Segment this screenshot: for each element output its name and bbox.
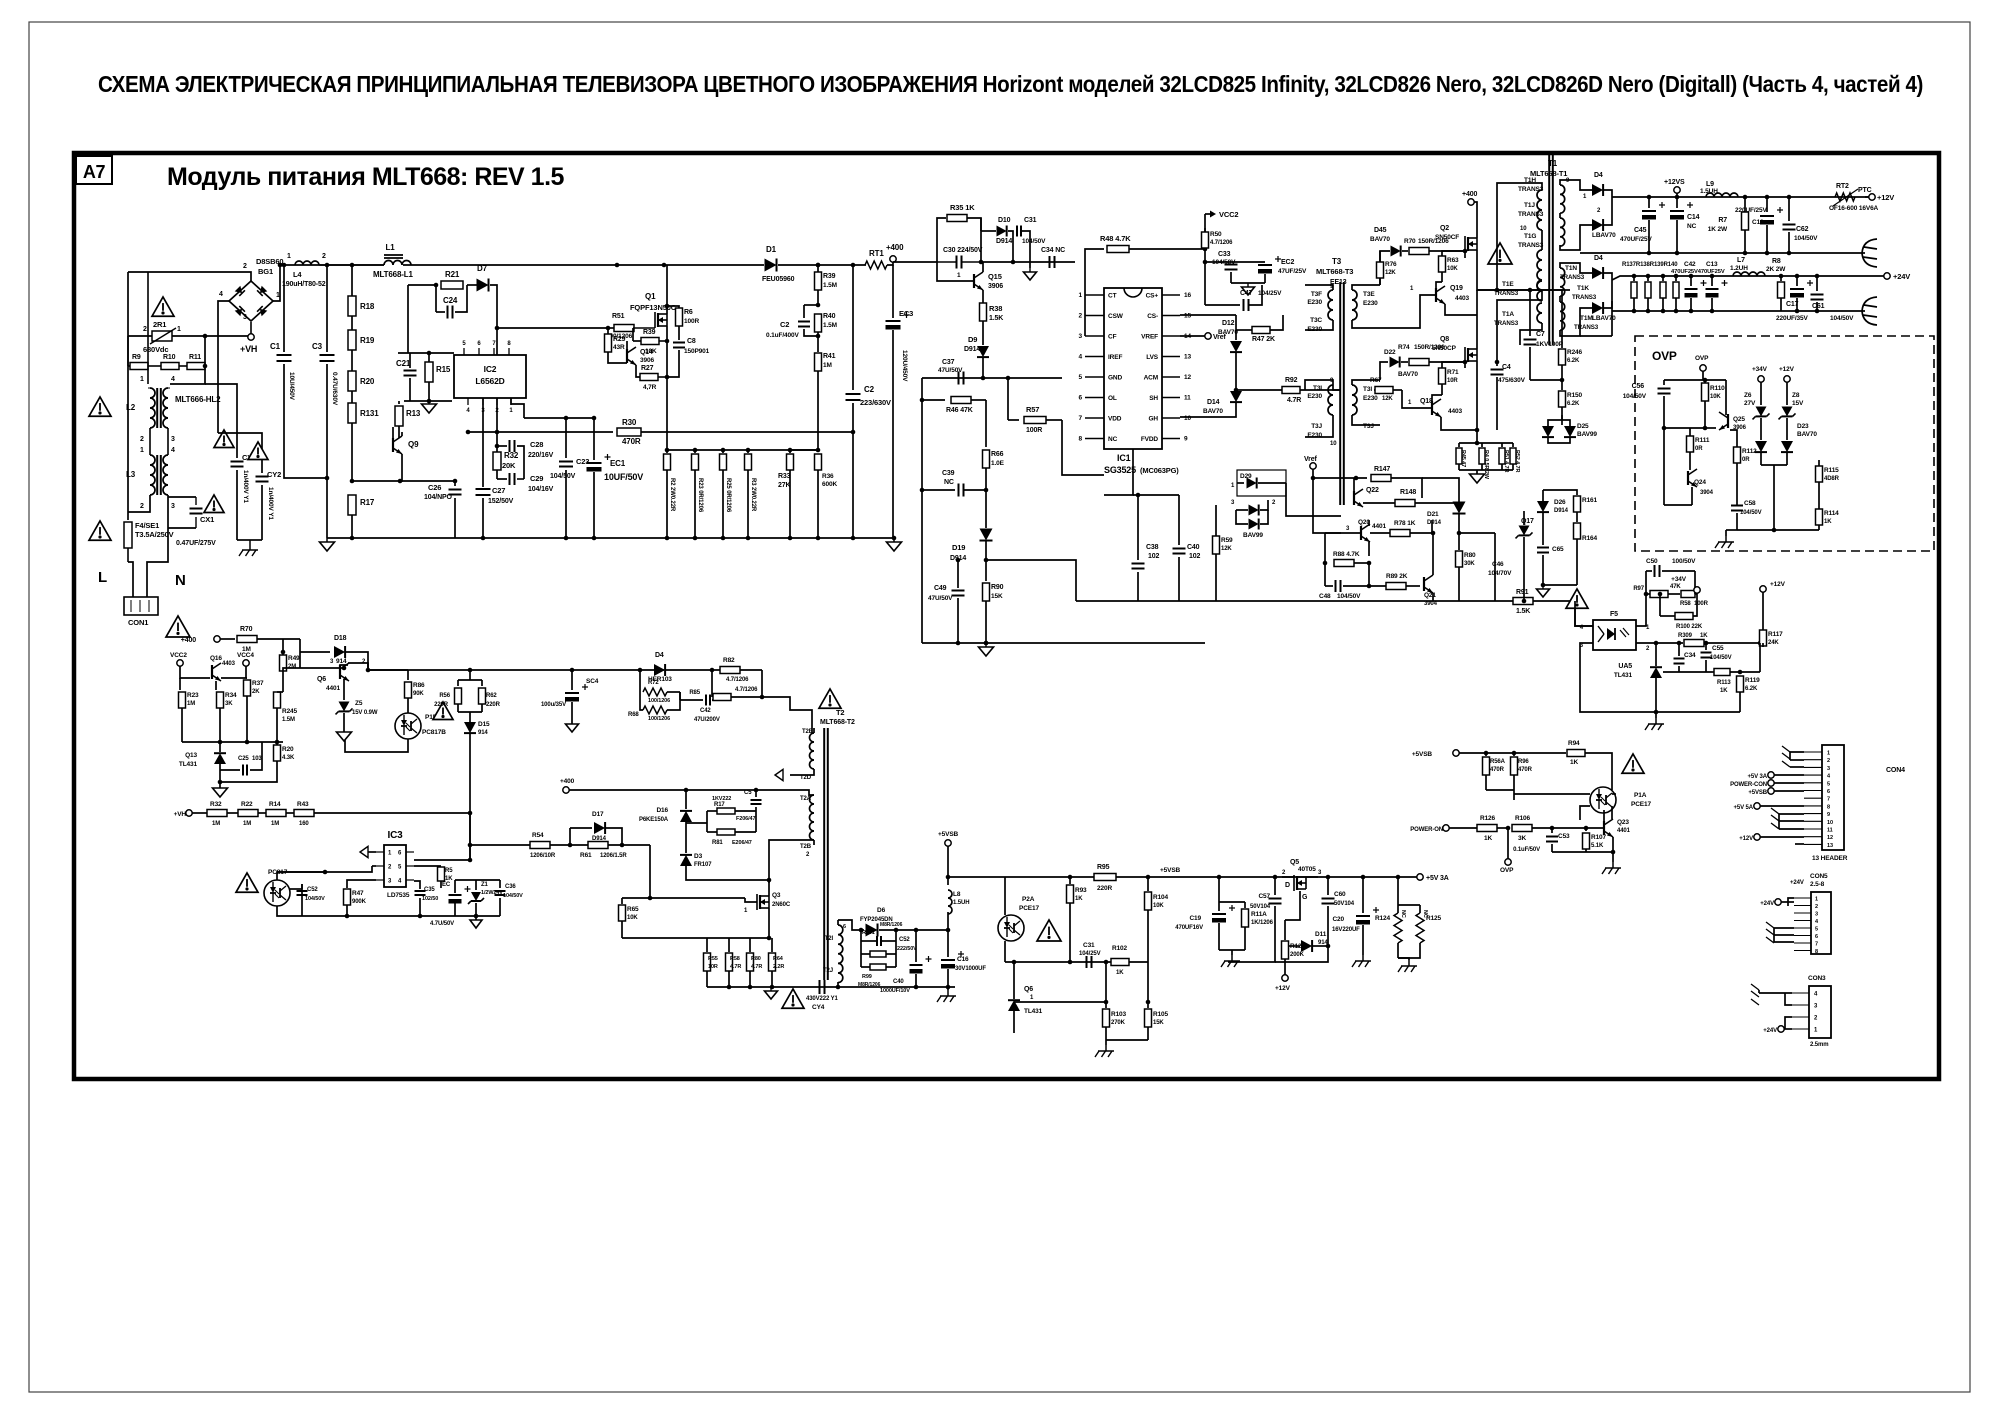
svg-text:C45: C45 bbox=[1634, 227, 1647, 234]
warning triangle CY4 bbox=[782, 989, 804, 1008]
optocoupler P1A bbox=[1590, 787, 1616, 813]
svg-text:47U/50V: 47U/50V bbox=[928, 595, 953, 602]
svg-text:R78 1K: R78 1K bbox=[1394, 520, 1416, 527]
svg-text:40T05: 40T05 bbox=[1298, 866, 1316, 873]
resistor R113 bbox=[1714, 669, 1730, 676]
svg-text:10R: 10R bbox=[708, 964, 718, 970]
sheet label A7 bbox=[76, 156, 112, 184]
svg-text:R80: R80 bbox=[751, 956, 761, 962]
svg-text:3: 3 bbox=[1079, 333, 1083, 340]
wire T2 top from +400 bbox=[563, 787, 569, 793]
svg-text:(MC063PG): (MC063PG) bbox=[1140, 466, 1179, 475]
svg-text:MLT668-L1: MLT668-L1 bbox=[373, 270, 413, 279]
resistor R23 bbox=[693, 448, 698, 453]
wire R21 C24 loop bbox=[408, 284, 436, 286]
wire R92 to T3 bbox=[1333, 385, 1341, 390]
svg-text:5N50CP: 5N50CP bbox=[1432, 345, 1457, 352]
wire T2 primary bottom to Q3 bbox=[769, 840, 814, 896]
svg-text:D914: D914 bbox=[1427, 520, 1442, 526]
svg-text:R39: R39 bbox=[643, 329, 656, 336]
svg-text:CON1: CON1 bbox=[128, 618, 148, 627]
ground SC4 bbox=[566, 724, 579, 732]
svg-text:100/1206: 100/1206 bbox=[648, 716, 670, 722]
svg-text:D11: D11 bbox=[1315, 931, 1327, 938]
svg-text:T2I: T2I bbox=[825, 936, 834, 942]
svg-text:D9: D9 bbox=[968, 335, 977, 344]
wire F5 pin1 bbox=[1636, 594, 1646, 626]
optocoupler PC817 IC3 bbox=[264, 880, 290, 906]
svg-text:Модуль питания MLT668: REV 1.5: Модуль питания MLT668: REV 1.5 bbox=[167, 163, 565, 191]
svg-text:1206/1.5R: 1206/1.5R bbox=[600, 853, 627, 859]
capacitor SC4 bbox=[570, 668, 575, 673]
wire IC3 bottom rail bbox=[302, 915, 455, 917]
capacitor C20 bbox=[1361, 875, 1366, 880]
svg-text:+12VS: +12VS bbox=[1664, 179, 1685, 186]
svg-text:T2: T2 bbox=[836, 708, 844, 717]
svg-text:EC: EC bbox=[442, 882, 451, 888]
svg-text:R70: R70 bbox=[1404, 238, 1416, 245]
svg-text:CON5: CON5 bbox=[1810, 873, 1828, 880]
svg-text:D15: D15 bbox=[478, 721, 490, 728]
resistor R35 bbox=[937, 218, 946, 262]
transistor Q21 bbox=[1423, 577, 1425, 591]
svg-text:223/630V: 223/630V bbox=[860, 398, 891, 407]
snubber resistor R81 bbox=[707, 831, 717, 833]
svg-text:16: 16 bbox=[1184, 292, 1191, 299]
svg-text:D45: D45 bbox=[1374, 227, 1387, 234]
svg-text:104/16V: 104/16V bbox=[528, 486, 554, 493]
svg-text:R48 4.7K: R48 4.7K bbox=[1100, 234, 1131, 243]
resistor R104 bbox=[1146, 875, 1151, 880]
svg-text:LD7535: LD7535 bbox=[387, 892, 410, 899]
wire IC1 bottom stub bbox=[1104, 449, 1133, 495]
svg-text:BG1: BG1 bbox=[258, 267, 273, 276]
svg-text:TRANS3: TRANS3 bbox=[1518, 242, 1544, 249]
svg-text:1.5K: 1.5K bbox=[1516, 608, 1530, 615]
wire +12V return bbox=[1580, 252, 1865, 254]
svg-text:R22: R22 bbox=[241, 801, 253, 808]
resistor R21 bbox=[441, 281, 463, 289]
wire down left rail D19 block bbox=[921, 378, 923, 643]
svg-text:E206/47: E206/47 bbox=[732, 840, 752, 846]
capacitor C61 bbox=[1815, 274, 1820, 279]
resistor R76 bbox=[1379, 251, 1381, 262]
resistor R126 bbox=[1477, 825, 1497, 832]
svg-text:R114: R114 bbox=[1824, 510, 1839, 517]
svg-text:4: 4 bbox=[1079, 354, 1083, 361]
varistor ZR1 bbox=[128, 335, 152, 337]
svg-text:Z8: Z8 bbox=[1792, 392, 1800, 399]
svg-text:+400: +400 bbox=[181, 637, 196, 644]
wire bus L1 to D1 bbox=[403, 264, 764, 266]
wire pin3 stub to C27 bbox=[482, 398, 484, 487]
svg-text:1.5M: 1.5M bbox=[823, 322, 837, 329]
svg-text:0R: 0R bbox=[1742, 457, 1750, 463]
resistor R5 bbox=[414, 865, 441, 867]
svg-text:R124: R124 bbox=[1375, 915, 1391, 922]
svg-text:D16: D16 bbox=[656, 807, 668, 814]
svg-text:R37: R37 bbox=[252, 680, 264, 687]
transistor Q17 bbox=[1519, 526, 1530, 536]
svg-text:680Vdc: 680Vdc bbox=[143, 345, 168, 354]
svg-text:+5VSB: +5VSB bbox=[1748, 790, 1767, 796]
svg-text:R10: R10 bbox=[163, 354, 176, 361]
diode D6 FYP2045DN bbox=[866, 924, 878, 937]
+VH terminal row bbox=[186, 810, 192, 816]
resistor R114 bbox=[1816, 509, 1823, 525]
svg-text:N: N bbox=[175, 572, 186, 589]
svg-text:2K: 2K bbox=[252, 689, 260, 695]
svg-text:2.5-8: 2.5-8 bbox=[1810, 881, 1825, 888]
svg-text:C38: C38 bbox=[1146, 544, 1159, 551]
wire to Q3 gate bbox=[650, 845, 745, 898]
capacitor C48 bbox=[1324, 563, 1326, 586]
wire IC2 top supply bbox=[496, 328, 498, 355]
capacitor C47 bbox=[1204, 262, 1206, 305]
svg-text:C5: C5 bbox=[744, 790, 752, 796]
CON4 +5VSB pin bbox=[1768, 788, 1774, 794]
resistor R49 bbox=[281, 650, 286, 655]
svg-text:104/NPO: 104/NPO bbox=[424, 494, 453, 501]
CON3 gnd hook bbox=[1751, 984, 1759, 1005]
svg-text:C14: C14 bbox=[1687, 214, 1700, 221]
svg-text:4.7R: 4.7R bbox=[751, 964, 762, 970]
warning triangle P2A bbox=[1037, 920, 1061, 941]
warning triangle PC817 bbox=[236, 873, 258, 892]
svg-text:C26: C26 bbox=[428, 483, 441, 492]
svg-text:R23 0R/1206: R23 0R/1206 bbox=[697, 478, 703, 513]
svg-text:EC1: EC1 bbox=[610, 459, 626, 468]
svg-text:5: 5 bbox=[1815, 927, 1818, 933]
svg-text:R34: R34 bbox=[225, 692, 237, 699]
svg-text:R52 4.7R: R52 4.7R bbox=[1514, 450, 1520, 472]
wire bus to R35 block bbox=[893, 261, 937, 263]
svg-text:R80: R80 bbox=[1464, 552, 1476, 559]
warning triangle CON1 bbox=[166, 616, 190, 637]
svg-text:T3I: T3I bbox=[1313, 385, 1322, 392]
svg-text:152/50V: 152/50V bbox=[488, 498, 514, 505]
svg-text:+400: +400 bbox=[1462, 191, 1477, 198]
svg-text:NC: NC bbox=[1400, 910, 1406, 918]
svg-text:R126: R126 bbox=[1480, 815, 1496, 822]
svg-text:470R: 470R bbox=[622, 437, 641, 446]
transistor Q22 bbox=[1353, 491, 1355, 505]
svg-text:D26: D26 bbox=[1554, 499, 1566, 506]
CON4 +12V pin bbox=[1754, 834, 1760, 840]
UA5 TL431 bbox=[1654, 641, 1659, 646]
resistor R309 bbox=[1684, 640, 1704, 647]
resistor R40 bbox=[816, 303, 821, 308]
svg-text:L2: L2 bbox=[126, 403, 136, 412]
svg-text:12: 12 bbox=[1827, 835, 1833, 841]
wire secondary bottom bbox=[837, 982, 839, 987]
svg-text:10: 10 bbox=[1184, 415, 1191, 422]
svg-text:100u/35V: 100u/35V bbox=[541, 702, 566, 708]
T3 winding upper right bbox=[1352, 290, 1357, 320]
svg-text:R55: R55 bbox=[708, 956, 718, 962]
ground IC2 bbox=[404, 400, 452, 402]
wire TL431 ref line bbox=[1663, 671, 1712, 673]
svg-text:1M: 1M bbox=[823, 362, 832, 369]
transistor Q18 bbox=[1431, 401, 1433, 415]
svg-text:R29: R29 bbox=[613, 336, 626, 343]
svg-text:2: 2 bbox=[243, 263, 247, 270]
svg-text:2: 2 bbox=[322, 253, 326, 260]
svg-text:C53: C53 bbox=[1558, 833, 1570, 840]
svg-text:1: 1 bbox=[287, 253, 291, 260]
svg-text:R35 1K: R35 1K bbox=[950, 203, 975, 212]
svg-text:R17: R17 bbox=[360, 498, 375, 507]
wire AC top to bridge bbox=[128, 272, 251, 281]
connector CON3 bbox=[1809, 986, 1831, 1038]
svg-text:4,7R: 4,7R bbox=[643, 384, 657, 391]
resistor R6 bbox=[667, 306, 679, 308]
wire Q3 gate connect bbox=[745, 898, 757, 902]
svg-text:VCC2: VCC2 bbox=[1219, 210, 1238, 219]
svg-text:470UF25V470UF25V: 470UF25V470UF25V bbox=[1671, 269, 1725, 275]
svg-text:R103: R103 bbox=[1111, 1011, 1127, 1018]
inductor L9 bbox=[1706, 193, 1738, 197]
wire R65 bottom bbox=[622, 937, 707, 939]
svg-text:104/50V: 104/50V bbox=[1740, 510, 1762, 516]
svg-text:FVDD: FVDD bbox=[1141, 436, 1159, 443]
svg-text:Q21: Q21 bbox=[1424, 592, 1436, 599]
svg-text:CF: CF bbox=[1108, 334, 1117, 341]
svg-text:1: 1 bbox=[177, 326, 181, 333]
svg-text:CY2: CY2 bbox=[267, 470, 281, 479]
T1 winding T1E bbox=[1537, 281, 1542, 301]
chassis TL431 bbox=[1655, 718, 1657, 724]
svg-text:R90: R90 bbox=[991, 584, 1004, 591]
resistor R245 bbox=[282, 691, 284, 693]
resistor R3 bbox=[746, 448, 751, 453]
svg-text:BAV70: BAV70 bbox=[1797, 431, 1817, 438]
svg-text:1K 2W: 1K 2W bbox=[1708, 226, 1728, 233]
resistor R27 bbox=[636, 365, 640, 377]
svg-text:T3J: T3J bbox=[1363, 423, 1374, 430]
svg-text:R43: R43 bbox=[297, 801, 309, 808]
svg-text:R137R138R139R140: R137R138R139R140 bbox=[1622, 262, 1678, 268]
IC3 box bbox=[384, 845, 406, 887]
resistor R37 bbox=[246, 677, 247, 679]
svg-text:3: 3 bbox=[171, 503, 175, 510]
svg-text:R106: R106 bbox=[1515, 815, 1531, 822]
svg-text:2: 2 bbox=[1815, 904, 1818, 910]
svg-text:C31: C31 bbox=[1083, 942, 1095, 949]
svg-text:0.47U/630V: 0.47U/630V bbox=[331, 372, 338, 406]
capacitor C33 bbox=[1204, 249, 1206, 262]
zener Z5 bbox=[343, 679, 345, 700]
svg-text:R89 2K: R89 2K bbox=[1386, 573, 1408, 580]
resistor R57 bbox=[1008, 419, 1019, 421]
svg-text:TL431: TL431 bbox=[1024, 1008, 1043, 1015]
svg-text:R111: R111 bbox=[1695, 437, 1710, 444]
resistor R78 bbox=[1368, 520, 1370, 526]
transistor Q2 SN50CP bbox=[1464, 236, 1466, 252]
svg-text:LVS: LVS bbox=[1146, 354, 1159, 361]
svg-text:D12: D12 bbox=[1222, 320, 1235, 327]
svg-text:C46: C46 bbox=[1492, 561, 1504, 568]
svg-text:R45 47: R45 47 bbox=[1460, 450, 1466, 467]
resistor R129 bbox=[1284, 920, 1286, 940]
svg-text:D: D bbox=[1285, 882, 1290, 889]
svg-text:R23: R23 bbox=[187, 692, 199, 699]
wire left rail L bbox=[127, 272, 129, 520]
resistor R147 bbox=[1313, 477, 1367, 479]
transistor Q23 wiring OVP bbox=[1691, 487, 1693, 505]
svg-text:1n/400V Y1: 1n/400V Y1 bbox=[267, 487, 274, 520]
svg-text:470UF16V: 470UF16V bbox=[1175, 925, 1203, 931]
svg-text:C56: C56 bbox=[1632, 383, 1645, 390]
resistor R86 bbox=[367, 663, 369, 670]
svg-text:R96: R96 bbox=[1518, 759, 1529, 765]
CON4 ground hook top bbox=[1790, 752, 1804, 760]
svg-text:C50: C50 bbox=[1646, 558, 1658, 565]
wire RT1 to +400 bbox=[887, 262, 893, 265]
svg-text:3906: 3906 bbox=[640, 357, 654, 364]
diode D21 bbox=[1431, 520, 1433, 533]
svg-text:Vref: Vref bbox=[1304, 456, 1317, 463]
svg-text:T1J: T1J bbox=[1524, 202, 1535, 209]
capacitor C38 bbox=[1137, 495, 1139, 560]
+12VS terminal bbox=[1675, 195, 1680, 200]
transistor Q16 bbox=[211, 665, 213, 679]
transistor Q25 bbox=[1727, 414, 1729, 428]
warning triangle sec bbox=[1622, 754, 1644, 773]
wire Q6 collector-emitter bbox=[348, 663, 368, 670]
svg-text:1: 1 bbox=[140, 447, 144, 454]
svg-text:4.7R: 4.7R bbox=[730, 964, 741, 970]
CON5 gnd hook bbox=[1766, 922, 1774, 943]
svg-text:12: 12 bbox=[1184, 374, 1191, 381]
capacitor EC1 bbox=[592, 416, 597, 421]
diode D19 bbox=[985, 490, 987, 528]
sense row R55 R58 R80 R64 bbox=[707, 937, 770, 939]
svg-text:R91: R91 bbox=[1516, 589, 1529, 596]
svg-text:+12V: +12V bbox=[1770, 581, 1786, 588]
svg-text:T3J: T3J bbox=[1311, 423, 1322, 430]
transistor Q1 FQPF13N50C bbox=[654, 312, 656, 328]
svg-text:15V 0.9W: 15V 0.9W bbox=[352, 710, 378, 716]
capacitor C24 bbox=[435, 285, 437, 312]
svg-text:+12V: +12V bbox=[1779, 366, 1795, 373]
resistor R111 bbox=[1663, 428, 1665, 436]
connector CON1 bbox=[124, 597, 158, 615]
resistor R68 zigzag bbox=[643, 706, 667, 714]
svg-text:30V1000UF: 30V1000UF bbox=[955, 966, 986, 972]
svg-text:R56A: R56A bbox=[1490, 759, 1506, 765]
svg-text:100R: 100R bbox=[1026, 427, 1042, 434]
svg-text:6.2K: 6.2K bbox=[1567, 401, 1580, 407]
T1 primary winding bbox=[1537, 190, 1542, 230]
wire PC817 loop bbox=[277, 872, 325, 880]
svg-text:CON3: CON3 bbox=[1808, 975, 1826, 982]
svg-text:R27: R27 bbox=[641, 365, 654, 372]
svg-text:1K: 1K bbox=[1075, 896, 1083, 902]
svg-text:3906: 3906 bbox=[988, 283, 1003, 290]
svg-text:C19: C19 bbox=[1189, 915, 1201, 922]
wire Z1 gnd bbox=[455, 915, 500, 917]
svg-text:R49: R49 bbox=[288, 655, 300, 662]
svg-text:102: 102 bbox=[1189, 553, 1201, 560]
svg-text:90K: 90K bbox=[413, 691, 424, 697]
svg-text:C29: C29 bbox=[530, 474, 543, 483]
svg-text:220R: 220R bbox=[1097, 885, 1112, 892]
svg-text:6: 6 bbox=[843, 924, 846, 930]
resistors R124 R125 NC bbox=[1396, 875, 1401, 880]
svg-text:R70: R70 bbox=[240, 626, 253, 633]
wire Q1 gate line bbox=[407, 285, 409, 353]
svg-text:10K: 10K bbox=[1447, 266, 1458, 272]
svg-text:4.3K: 4.3K bbox=[282, 755, 295, 761]
svg-text:C17: C17 bbox=[1786, 301, 1799, 308]
resistor R91 bbox=[1513, 598, 1533, 605]
svg-text:M8R/1206: M8R/1206 bbox=[880, 922, 903, 928]
svg-text:C16: C16 bbox=[957, 956, 969, 963]
svg-text:R59: R59 bbox=[1221, 537, 1233, 544]
svg-text:1K: 1K bbox=[1116, 970, 1124, 976]
svg-text:GND: GND bbox=[1108, 375, 1122, 382]
wire Q9 collector bbox=[401, 432, 403, 436]
svg-text:C58: C58 bbox=[1744, 500, 1756, 507]
diode D12 BAV70 bbox=[1180, 314, 1236, 316]
capacitor CY2 bbox=[218, 433, 262, 473]
svg-text:4.7R: 4.7R bbox=[1287, 397, 1301, 404]
svg-text:E230: E230 bbox=[1307, 393, 1322, 400]
svg-text:8: 8 bbox=[1079, 436, 1083, 443]
svg-text:CON4: CON4 bbox=[1886, 767, 1905, 774]
diode D16 P6KE150A bbox=[684, 788, 689, 793]
capacitor C25 bbox=[220, 769, 240, 771]
svg-text:914: 914 bbox=[336, 658, 347, 665]
wire P1B bottom bbox=[345, 739, 408, 752]
capacitor C50 bbox=[1646, 570, 1652, 572]
wire L3 bottoms bbox=[128, 495, 150, 512]
diode D25 BAV99 bbox=[1542, 426, 1554, 437]
resistor R43b bbox=[294, 810, 314, 817]
svg-text:D4: D4 bbox=[655, 652, 664, 659]
capacitor EC2 bbox=[1231, 261, 1265, 263]
svg-text:R20: R20 bbox=[360, 377, 375, 386]
wire C53 R107 join bbox=[1552, 851, 1613, 853]
sense resistors R45 R4 R51b R52 bbox=[1459, 442, 1513, 444]
svg-text:C3: C3 bbox=[312, 342, 323, 351]
svg-text:C49: C49 bbox=[934, 585, 947, 592]
thermistor RT1 bbox=[865, 261, 887, 269]
svg-text:R11: R11 bbox=[189, 354, 201, 361]
resistor R61 bbox=[570, 844, 588, 846]
wire R131 to Q9 node bbox=[352, 480, 400, 482]
capacitor C42 bbox=[1689, 274, 1694, 279]
svg-text:R101: R101 bbox=[862, 930, 875, 936]
svg-text:R39: R39 bbox=[823, 273, 836, 280]
svg-text:E230: E230 bbox=[1363, 300, 1378, 307]
wire OVP tap bbox=[1507, 828, 1509, 859]
svg-text:IREF: IREF bbox=[1108, 354, 1122, 361]
resistor R70 bbox=[220, 638, 235, 640]
svg-text:T3: T3 bbox=[1332, 257, 1342, 266]
ground arrow sense bbox=[770, 987, 772, 991]
capacitor CX1 bbox=[195, 497, 197, 505]
inductor L4 bbox=[295, 261, 319, 265]
capacitor C35 bbox=[419, 898, 421, 916]
inductor L1 MLT668-L1 bbox=[384, 261, 411, 266]
svg-text:R15: R15 bbox=[436, 365, 451, 374]
resistor R11A bbox=[1219, 901, 1245, 903]
wire pin2 stub down bbox=[496, 398, 498, 446]
resistor R71 bbox=[1464, 362, 1466, 368]
svg-text:R161: R161 bbox=[1582, 497, 1598, 504]
